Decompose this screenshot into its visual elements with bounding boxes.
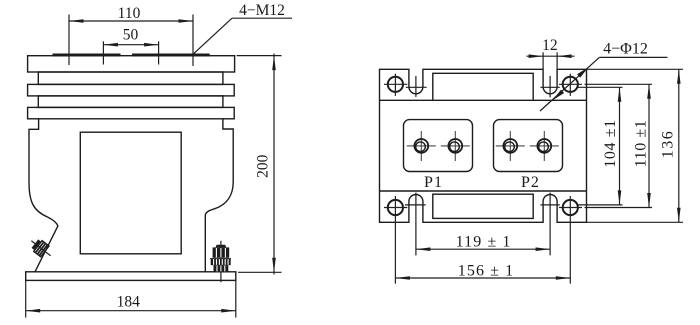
svg-text:184: 184 [117, 293, 141, 310]
dimension 156 [395, 277, 570, 279]
raised strip left segment [53, 54, 121, 57]
svg-text:110 ±1: 110 ±1 [633, 120, 650, 168]
svg-text:200: 200 [254, 154, 271, 178]
svg-text:4−M12: 4−M12 [239, 2, 285, 19]
terminal hole 1 [407, 131, 436, 161]
dimension 104 [577, 87, 622, 205]
terminal hole 3 [496, 131, 525, 161]
ground screw (lower-left, rotated) [27, 235, 55, 261]
corner hole bottom-right [559, 196, 582, 284]
dimension 184 [26, 281, 236, 318]
svg-text:P2: P2 [521, 174, 540, 191]
leader 4-PHI12 [540, 57, 668, 111]
dimension 110pm [585, 84, 653, 207]
corner hole top-left [384, 74, 407, 96]
svg-text:110: 110 [118, 5, 141, 22]
leader 4-M12 [194, 18, 293, 54]
dimension 50 [103, 41, 158, 64]
fin band 2 wide [28, 84, 235, 96]
corner hole top-right [559, 74, 582, 96]
left view top plate [28, 56, 235, 72]
P1 terminal box [404, 120, 473, 172]
dimension 110 [69, 15, 193, 67]
svg-text:104 ±1: 104 ±1 [602, 119, 619, 167]
svg-text:12: 12 [542, 37, 558, 54]
svg-text:136: 136 [660, 130, 677, 159]
body outline with side grooves and taper [29, 119, 233, 272]
fin band 4 wide [28, 107, 235, 118]
svg-text:4−Φ12: 4−Φ12 [603, 41, 648, 58]
window rectangle [80, 132, 181, 254]
dimension 12 [527, 52, 575, 69]
raised strip right segment [132, 54, 210, 57]
slot centerlines top-right [540, 76, 559, 98]
P2 terminal box [494, 120, 563, 172]
top recess rectangle [433, 73, 533, 100]
dimension 136 [587, 69, 684, 222]
slot centerlines bottom-right [540, 193, 559, 256]
svg-text:P1: P1 [424, 174, 443, 191]
svg-text:156 ± 1: 156 ± 1 [458, 263, 514, 280]
face line bottom [380, 190, 587, 192]
slot centerlines bottom-left [405, 193, 426, 256]
terminal bolt on base (right side of left view) [210, 241, 231, 282]
terminal hole 4 [530, 131, 559, 161]
slot centerlines top-left [406, 76, 427, 97]
fin band 3 inset [38, 96, 223, 108]
base plate [26, 272, 236, 281]
corner hole bottom-left [384, 196, 407, 284]
fin band 1 inset [38, 72, 223, 84]
right view outer body with corner mounting slots [380, 69, 587, 222]
terminal hole 2 [441, 131, 470, 161]
svg-text:119 ± 1: 119 ± 1 [456, 234, 512, 251]
bottom recess rectangle [433, 194, 533, 218]
face line top [380, 99, 587, 101]
dimension 200 [237, 54, 282, 275]
dimension 119 [416, 248, 550, 250]
svg-text:50: 50 [123, 26, 139, 43]
